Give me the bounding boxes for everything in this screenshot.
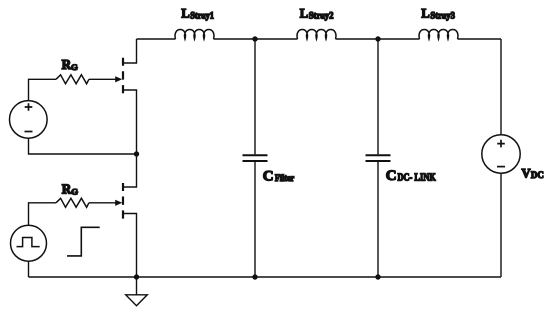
- svg-text:Stray3: Stray3: [430, 11, 455, 21]
- capacitor CFilter top wire: [254, 39, 256, 154]
- svg-text:Stray2: Stray2: [309, 11, 334, 21]
- wire RG1 to gate arrow shaft: [89, 78, 116, 80]
- wire top rail segment 2: [214, 38, 298, 40]
- node dot midpoint: [134, 151, 139, 156]
- gate step waveform symbol: [67, 227, 100, 256]
- capacitor CDC-LINK top wire: [377, 39, 379, 154]
- V2 pulse symbol: [17, 238, 40, 247]
- resistor RG1 zigzag: [56, 75, 89, 84]
- transistor Q2 channel segments: [122, 183, 124, 219]
- node dot bottom ground: [134, 274, 139, 279]
- svg-text:C: C: [263, 168, 274, 184]
- resistor RG2 zigzag: [56, 198, 89, 207]
- wire right side lower: [500, 173, 502, 277]
- inductor LStray2: [297, 30, 336, 39]
- svg-text:L: L: [300, 7, 308, 21]
- wire V2 bottom return: [28, 261, 30, 277]
- svg-text:C: C: [386, 168, 397, 184]
- svg-text:G: G: [71, 62, 78, 72]
- V1 minus sign: [25, 131, 33, 133]
- wire V1 top to gate level: [29, 79, 57, 100]
- node dot bottom rail B: [375, 274, 380, 279]
- gate driver source V1 circle: [10, 101, 48, 139]
- voltage source VDC circle: [482, 135, 520, 173]
- node dot top rail A: [252, 36, 257, 41]
- capacitor CFilter bottom wire: [254, 162, 256, 277]
- wire V1 bottom return: [29, 138, 137, 154]
- capacitor CFilter plates: [243, 155, 268, 161]
- svg-text:L: L: [421, 7, 429, 21]
- V1 plus sign: [25, 103, 33, 111]
- wire top rail segment 1: [137, 38, 176, 40]
- wire top rail segment 3: [336, 38, 420, 40]
- Q2 source tick and wire: [123, 214, 137, 278]
- wire RG2 to gate arrow shaft: [89, 202, 116, 204]
- node dot top rail B: [375, 36, 380, 41]
- pulse source V2 circle: [11, 225, 47, 261]
- svg-text:V: V: [522, 166, 531, 180]
- svg-text:G: G: [71, 187, 78, 197]
- wire top rail segment 4: [458, 38, 502, 40]
- inductor LStray3: [419, 30, 458, 39]
- svg-text:Filter: Filter: [275, 174, 295, 184]
- wire bottom rail: [29, 276, 502, 278]
- VDC minus sign: [497, 166, 505, 168]
- wire right side upper: [500, 39, 502, 135]
- svg-text:Stray1: Stray1: [190, 11, 214, 21]
- VDC plus sign: [497, 140, 505, 148]
- Q2 drain tick and wire: [123, 154, 137, 187]
- svg-text:L: L: [181, 7, 189, 21]
- ground symbol triangle: [126, 295, 148, 306]
- Q1 source tick and wire: [123, 90, 137, 154]
- capacitor CDC-LINK bottom wire: [377, 162, 379, 277]
- Q1 drain tick and wire: [123, 39, 137, 63]
- gate arrow Q2: [115, 200, 122, 206]
- inductor LStray1: [175, 30, 214, 39]
- svg-text:DC- LINK: DC- LINK: [398, 173, 436, 184]
- wire V2 top to gate level: [29, 203, 57, 225]
- svg-text:DC: DC: [531, 171, 544, 181]
- ground stub wire: [136, 277, 138, 295]
- node dot bottom rail A: [252, 274, 257, 279]
- transistor Q1 channel segments: [122, 58, 124, 94]
- gate arrow Q1: [115, 76, 122, 82]
- capacitor CDC-LINK plates: [366, 155, 391, 161]
